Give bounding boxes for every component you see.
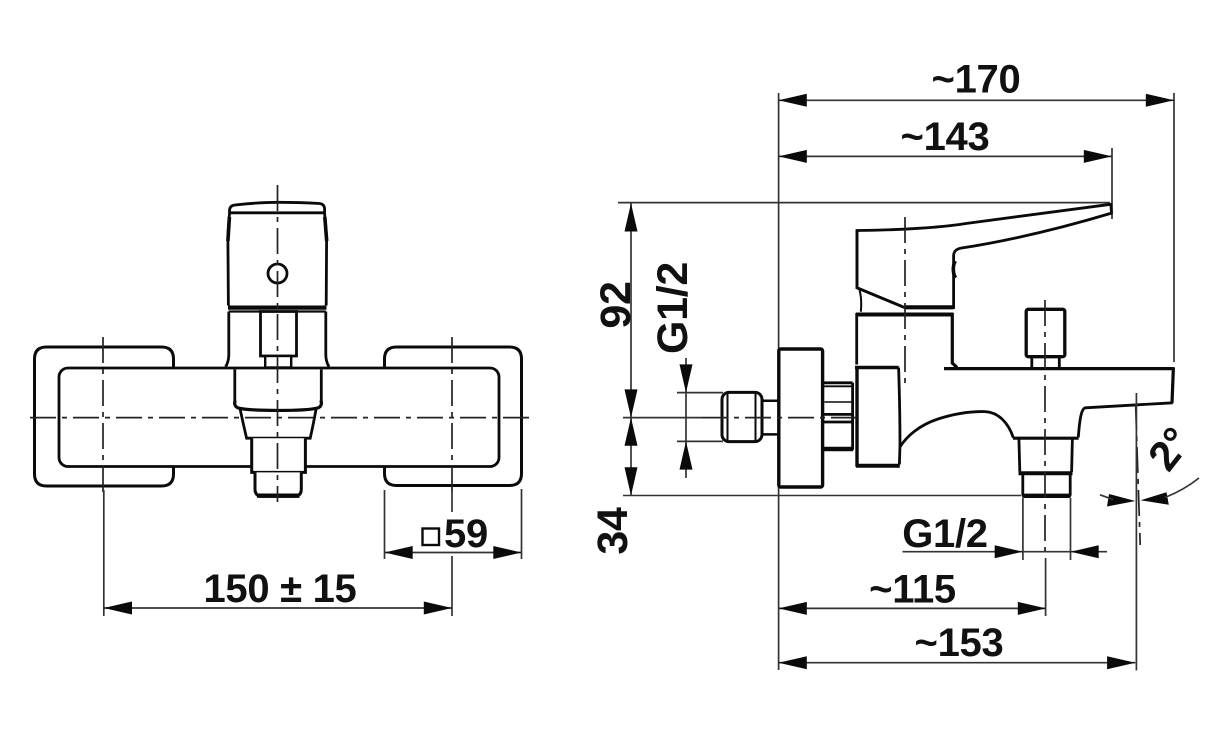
handle rear skirt arc	[859, 288, 861, 312]
neck outer sides with flare	[226, 312, 329, 367]
eccentric connector groove	[824, 413, 853, 416]
dim 34 top arrow	[625, 418, 638, 446]
dim square59 left arrow	[385, 546, 413, 559]
wall flange	[779, 349, 823, 487]
centerline valve axis	[904, 217, 906, 384]
dim ~115 left arrow	[779, 602, 807, 615]
dim G1/2 outlet line	[903, 551, 1108, 553]
handle lever (side view)	[857, 204, 1112, 307]
dim 34 line	[630, 418, 632, 496]
spout upper verticals	[233, 370, 236, 405]
dim ~170 line	[779, 99, 1174, 101]
eccentric connector step line	[825, 401, 853, 403]
outlet thread bottom edge	[1024, 494, 1069, 498]
deck underside	[1078, 403, 1173, 438]
svg-text:92: 92	[592, 281, 640, 328]
dim ~115 right arrow	[1018, 602, 1046, 615]
dim G1/2 inlet top arrow	[680, 364, 693, 392]
svg-text:~115: ~115	[869, 568, 956, 612]
inlet nut chamfer lines	[727, 394, 729, 441]
spout aerator bottom edge	[257, 494, 300, 498]
eccentric connector right edge	[851, 383, 854, 450]
valve body ledge	[855, 366, 899, 369]
centerline horizontal (front view)	[30, 417, 531, 419]
dim 92 line	[630, 203, 632, 417]
check valve knob	[1026, 309, 1065, 356]
spout collar (tapered)	[240, 410, 316, 439]
dim G1/2 outlet left arrow	[995, 545, 1023, 558]
dim ~143 right arrow	[1084, 150, 1112, 163]
cartridge block under handle	[261, 312, 297, 357]
centerline vertical (front view)	[277, 185, 279, 502]
body (front view main horizontal body)	[59, 368, 499, 467]
handle side ticks	[228, 217, 230, 241]
angle arrows 2deg	[1107, 494, 1135, 507]
centerline inlet axis	[702, 417, 857, 419]
svg-text:~153: ~153	[915, 621, 1004, 665]
extension line inlet center	[623, 417, 702, 419]
dim ~153 line	[779, 662, 1136, 664]
handle cap base line	[230, 211, 325, 214]
spout mid block	[252, 438, 306, 472]
dim 150±15 extension lines	[103, 490, 105, 616]
dim 92 top arrow	[625, 203, 638, 231]
handle cap (front view)	[230, 202, 325, 213]
dim 150±15 right arrow	[424, 602, 452, 615]
spout aerator	[255, 472, 301, 496]
extension line right of deck	[1173, 93, 1175, 362]
dim square59 line	[385, 552, 522, 554]
right wall block	[385, 347, 522, 486]
rear column right edge	[899, 368, 900, 465]
deck top edge	[944, 367, 1173, 370]
dim ~170 right arrow	[1146, 94, 1174, 107]
rear column left edge	[855, 368, 858, 467]
valve body top edge	[856, 313, 954, 317]
svg-text:150 ± 15: 150 ± 15	[203, 567, 356, 611]
square symbol	[423, 529, 440, 546]
angle leader right arc	[1165, 478, 1199, 498]
handle front notch	[953, 261, 955, 278]
spout shadow arc	[235, 400, 322, 410]
dim ~143 line	[779, 155, 1112, 157]
dim 92 bottom arrow	[625, 389, 638, 417]
dim ~115 line	[779, 607, 1046, 609]
neck top edge segments	[229, 310, 261, 312]
extension outlet axis lower	[1045, 558, 1047, 616]
rear column bottom edge	[856, 464, 900, 468]
check valve stem	[1032, 357, 1060, 368]
handle bottom thick edge	[904, 305, 954, 309]
extension line handle tip level	[618, 202, 1110, 204]
svg-text:~170: ~170	[932, 58, 1021, 102]
dim G1/2 inlet bottom arrow	[680, 441, 693, 469]
dim G1/2 inlet line	[685, 358, 687, 478]
tilt vertical reference	[1135, 393, 1137, 670]
angle leader left tail	[1100, 495, 1113, 500]
outlet flange line	[1013, 437, 1079, 440]
valve body left edge	[855, 313, 858, 365]
eccentric connector top edges	[824, 381, 853, 384]
handle bottom edge	[228, 306, 327, 310]
dim G1/2 outlet extension lines	[1022, 498, 1024, 560]
handle lever bottom slope fix	[857, 231, 954, 308]
inlet stub	[762, 401, 779, 435]
deck right edge	[1172, 367, 1173, 403]
svg-text:~143: ~143	[901, 115, 990, 159]
svg-text:G1/2: G1/2	[649, 262, 697, 354]
extension line handle tip vertical	[1111, 148, 1113, 219]
cartridge stub	[265, 356, 291, 368]
dim ~153 right arrow	[1107, 656, 1135, 669]
dim ~143 left arrow	[779, 150, 807, 163]
outlet mid band	[1019, 471, 1073, 475]
centerline right block	[451, 337, 453, 492]
svg-text:34: 34	[589, 507, 637, 555]
dim square59 right arrow	[493, 546, 521, 559]
dim ~170 left arrow	[779, 94, 807, 107]
outlet upper stub	[1019, 438, 1073, 472]
eccentric connector bottom edge	[824, 447, 854, 451]
dim G1/2 inlet extension lines	[677, 392, 723, 394]
handle screw hole	[268, 264, 287, 283]
spout underside curve	[900, 412, 1013, 447]
tilt axis 2deg	[1136, 404, 1141, 545]
centerline left block	[102, 337, 104, 492]
centerline outlet axis	[1044, 300, 1046, 558]
inlet union nut	[722, 392, 762, 441]
dim G1/2 outlet right arrow	[1071, 545, 1099, 558]
handle body (front view trapezoid)	[228, 214, 327, 306]
dim square59 extension lines	[384, 490, 386, 559]
dim 34 bottom arrow	[625, 467, 638, 495]
dim ~153 left arrow	[779, 656, 807, 669]
svg-text:G1/2: G1/2	[902, 512, 988, 556]
dim 150±15 left arrow	[104, 602, 132, 615]
dim 150±15 line	[104, 607, 452, 609]
outlet thread sides	[1023, 475, 1070, 496]
extension line outlet bottom level	[623, 495, 1021, 497]
svg-text:59: 59	[444, 512, 488, 556]
extension line wall plane	[778, 93, 780, 670]
left wall block	[35, 347, 174, 486]
valve body right edge	[952, 313, 957, 367]
